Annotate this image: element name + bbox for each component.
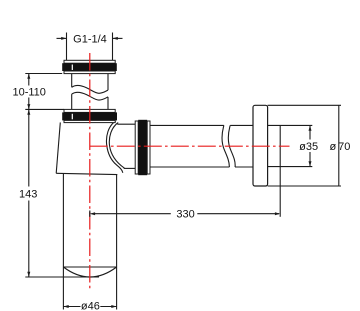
svg-text:143: 143 [19, 188, 37, 200]
svg-text:G1-1/4: G1-1/4 [73, 33, 107, 45]
svg-text:70: 70 [338, 141, 350, 153]
svg-text:ø: ø [330, 141, 337, 153]
svg-text:ø35: ø35 [299, 141, 318, 153]
svg-text:330: 330 [176, 209, 194, 221]
svg-text:10-110: 10-110 [12, 86, 45, 98]
svg-text:ø46: ø46 [81, 301, 100, 311]
